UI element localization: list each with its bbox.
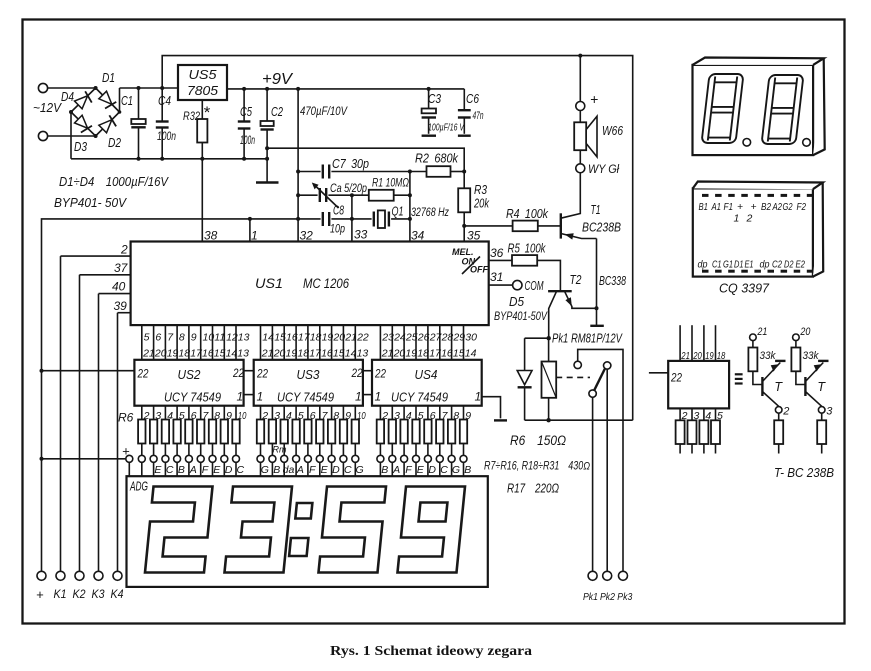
digit 2 — [145, 487, 213, 573]
svg-text:8: 8 — [179, 332, 185, 344]
svg-text:1: 1 — [251, 229, 258, 243]
diode D4 — [75, 91, 94, 110]
svg-text:2: 2 — [120, 243, 128, 257]
svg-text:C1: C1 — [712, 259, 722, 271]
svg-text:Pk2: Pk2 — [600, 591, 615, 603]
pin 40 wire — [99, 293, 131, 295]
resistor array col 4 — [173, 406, 185, 477]
resistor array col 12 — [281, 406, 295, 477]
IC US1 MC1206 — [131, 242, 489, 326]
svg-text:19: 19 — [405, 348, 417, 360]
svg-text:F: F — [405, 464, 412, 476]
svg-text:22: 22 — [256, 367, 268, 381]
svg-text:22: 22 — [356, 332, 369, 344]
svg-text:31: 31 — [490, 270, 503, 284]
svg-text:40: 40 — [112, 280, 126, 294]
svg-text:US4: US4 — [415, 368, 438, 382]
svg-text:E: E — [417, 464, 425, 476]
CQ3397 top labels — [699, 201, 807, 225]
resistor array col 24 — [436, 406, 449, 477]
wire US4 pin1 to ground — [482, 397, 501, 419]
svg-text:1: 1 — [237, 390, 244, 404]
svg-text:C: C — [237, 464, 245, 476]
relay contact fixed — [574, 361, 581, 368]
svg-text:UCY 74549: UCY 74549 — [277, 390, 334, 405]
svg-text:1: 1 — [734, 213, 740, 225]
svg-text:7805: 7805 — [187, 83, 219, 98]
svg-text:E: E — [154, 464, 162, 476]
svg-text:5: 5 — [144, 332, 150, 344]
svg-text:D: D — [428, 464, 436, 476]
svg-text:C5: C5 — [240, 105, 252, 119]
svg-text:2: 2 — [143, 410, 150, 422]
diode D2 — [99, 115, 118, 134]
svg-text:2: 2 — [261, 410, 268, 422]
svg-text:D1: D1 — [102, 71, 115, 85]
svg-text:A1: A1 — [711, 201, 721, 213]
svg-text:C7 30p: C7 30p — [332, 157, 369, 171]
svg-text:B1: B1 — [699, 201, 709, 213]
svg-text:ADG: ADG — [129, 479, 148, 494]
svg-text:R5 100k: R5 100k — [508, 242, 547, 256]
svg-text:2: 2 — [381, 410, 388, 422]
resistor array col 6 — [197, 406, 210, 477]
svg-text:B: B — [464, 464, 471, 476]
svg-text:32: 32 — [300, 229, 314, 243]
svg-text:C6: C6 — [466, 92, 479, 106]
wire common plus line — [42, 219, 299, 572]
pin 31 wire — [489, 284, 513, 286]
svg-text:11: 11 — [214, 332, 225, 344]
svg-text:22: 22 — [232, 366, 244, 380]
svg-text:R4 100k: R4 100k — [506, 207, 549, 221]
resistor array col 25 — [448, 406, 460, 477]
svg-text:21: 21 — [261, 348, 274, 360]
svg-text:8: 8 — [333, 410, 339, 422]
resistor R32 — [183, 100, 211, 242]
wires US1 to driver pin columns — [142, 325, 464, 360]
terminal + — [37, 571, 46, 580]
trimmer Ca — [298, 181, 367, 208]
svg-text:E: E — [321, 464, 329, 476]
svg-text:T- BC 238B: T- BC 238B — [774, 466, 834, 480]
svg-text:100n: 100n — [157, 131, 176, 143]
svg-text:10p: 10p — [330, 222, 345, 236]
svg-text:13: 13 — [238, 332, 250, 344]
resistor array col 15 — [316, 406, 329, 477]
svg-text:K2: K2 — [73, 589, 87, 601]
svg-text:G1: G1 — [723, 259, 733, 271]
svg-text:21: 21 — [757, 326, 768, 338]
svg-text:3: 3 — [155, 410, 161, 422]
resistor R4 — [464, 207, 561, 231]
svg-text:Pk1: Pk1 — [583, 591, 598, 603]
svg-text:F: F — [202, 464, 209, 476]
module dp 1 — [743, 139, 751, 147]
svg-text:G: G — [261, 464, 269, 476]
svg-text:dp: dp — [760, 259, 770, 271]
resistor R3 — [458, 172, 489, 242]
svg-text:23: 23 — [381, 332, 394, 344]
wire pin22 row to plus line — [42, 370, 135, 372]
svg-text:8: 8 — [214, 410, 220, 422]
junction dots mid — [40, 306, 599, 461]
terminal ~12V upper — [38, 83, 47, 92]
svg-text:R3: R3 — [474, 183, 487, 197]
svg-text:Pk3: Pk3 — [617, 591, 632, 603]
svg-text:MC 1206: MC 1206 — [303, 276, 349, 291]
svg-text:25: 25 — [405, 332, 418, 344]
svg-text:32768 Hz: 32768 Hz — [411, 207, 449, 219]
svg-text:US1: US1 — [255, 276, 283, 291]
svg-text:15: 15 — [274, 332, 286, 344]
wire top rail to speaker — [162, 56, 633, 421]
svg-text:F1: F1 — [724, 201, 734, 213]
7-seg display module 3D — [693, 58, 825, 156]
digit 3 — [224, 487, 292, 573]
svg-text:21: 21 — [681, 350, 690, 362]
transistor T1 BC238B — [561, 173, 621, 240]
svg-text:33: 33 — [354, 228, 368, 242]
capacitor C7 — [298, 157, 410, 179]
svg-text:20: 20 — [154, 348, 167, 360]
svg-text:16: 16 — [321, 348, 333, 360]
resistor R2 — [410, 151, 464, 177]
svg-text:15: 15 — [453, 348, 465, 360]
svg-text:BYP401-50V: BYP401-50V — [494, 311, 548, 323]
transistor equivalent 2 pins 20-3 — [791, 326, 833, 454]
pin 2 wire — [61, 255, 131, 257]
svg-text:22: 22 — [351, 366, 363, 380]
svg-text:R32: R32 — [183, 109, 200, 123]
capacitor C4 — [156, 88, 176, 159]
svg-text:C8: C8 — [333, 204, 344, 218]
wire K4 vertical — [117, 313, 119, 572]
svg-text:D1÷D4 1000µF/16V: D1÷D4 1000µF/16V — [59, 174, 169, 189]
node DC- riser — [70, 112, 72, 159]
capacitor C6 — [458, 89, 484, 136]
wire Pk1 vertical — [592, 397, 594, 571]
MEL ON/OFF switch — [452, 247, 488, 275]
wire plus row — [42, 458, 126, 460]
svg-text:18: 18 — [297, 348, 309, 360]
svg-text:R6 150Ω: R6 150Ω — [510, 433, 566, 448]
resistor R1 — [352, 176, 410, 201]
pin 37 wire — [80, 274, 131, 276]
terminal K4 — [113, 571, 122, 580]
svg-text:F: F — [309, 464, 316, 476]
svg-text:14: 14 — [465, 348, 477, 360]
resistor array col 8 — [221, 406, 233, 477]
svg-text:E: E — [213, 464, 221, 476]
relay coil Pk1 — [542, 338, 557, 420]
wire ground rail — [71, 158, 267, 160]
display board box — [127, 476, 488, 587]
svg-text:18: 18 — [717, 350, 726, 362]
terminal K2 — [75, 571, 84, 580]
terminal Pk1 — [588, 571, 597, 580]
svg-text:28: 28 — [441, 332, 454, 344]
svg-text:10: 10 — [238, 410, 247, 422]
wire US3-US4 links — [363, 370, 372, 372]
svg-text:D2: D2 — [108, 136, 121, 150]
wire pin32 vertical — [297, 89, 299, 242]
capacitor C2 — [261, 89, 284, 183]
wire AC top — [48, 87, 96, 89]
regulator US5 7805 — [178, 65, 227, 100]
wire DC+ rail to US5 — [120, 87, 179, 89]
svg-text:C: C — [166, 464, 174, 476]
svg-text:470µF/10V: 470µF/10V — [300, 104, 348, 118]
pin 36 wire — [489, 259, 512, 261]
wire pin33 vertical — [351, 195, 353, 241]
svg-text:5: 5 — [179, 410, 185, 422]
svg-text:13: 13 — [237, 348, 249, 360]
svg-text:100n: 100n — [240, 135, 255, 147]
svg-text:15: 15 — [214, 348, 226, 360]
svg-text:R6: R6 — [118, 411, 134, 425]
svg-text:K4: K4 — [111, 589, 124, 601]
equivalence symbol — [735, 374, 743, 383]
svg-text:36: 36 — [490, 246, 504, 260]
svg-text:D3: D3 — [74, 140, 87, 154]
svg-text:R7÷R16, R18÷R31 430Ω: R7÷R16, R18÷R31 430Ω — [484, 461, 590, 473]
speaker WY GL terminal — [579, 150, 581, 164]
svg-text:15: 15 — [333, 348, 345, 360]
capacitor C3 — [422, 89, 465, 136]
svg-text:9: 9 — [465, 410, 471, 422]
labels driver top pin numbers — [142, 348, 477, 360]
CQ3397 bottom labels — [698, 259, 806, 271]
resistor array col 22 — [412, 406, 424, 477]
svg-text:19: 19 — [705, 350, 714, 362]
svg-text:D4: D4 — [61, 90, 74, 104]
terminal plus row circle — [126, 455, 133, 462]
svg-text:2: 2 — [681, 410, 688, 422]
svg-text:US3: US3 — [297, 368, 320, 382]
svg-text:5: 5 — [418, 410, 424, 422]
labels US1 bottom pin numbers — [144, 332, 478, 344]
svg-text:10: 10 — [357, 410, 366, 422]
svg-text:BYP401- 50V: BYP401- 50V — [54, 195, 127, 210]
bridge rectifier frame — [71, 88, 120, 136]
resistor array col 16 — [328, 406, 340, 477]
svg-text:+: + — [751, 201, 757, 213]
svg-text:+9V: +9V — [262, 71, 294, 88]
relay contact lever — [604, 362, 611, 369]
svg-text:29: 29 — [452, 332, 465, 344]
svg-text:20: 20 — [800, 326, 812, 338]
CQ3397 pinout box 3D — [693, 182, 823, 277]
svg-text:G2: G2 — [783, 201, 793, 213]
svg-text:18: 18 — [417, 348, 429, 360]
svg-text:Pk1 RM81P/12V: Pk1 RM81P/12V — [552, 332, 623, 346]
svg-text:G: G — [356, 464, 364, 476]
resistor array col 19 — [377, 406, 389, 477]
module digit 2 — [762, 75, 804, 144]
svg-text:Ca 5/20p: Ca 5/20p — [330, 181, 367, 195]
svg-text:21: 21 — [344, 332, 357, 344]
svg-text:1: 1 — [257, 390, 264, 404]
wire T1 emitter down — [596, 239, 598, 309]
svg-text:33k: 33k — [803, 350, 819, 362]
svg-text:22: 22 — [137, 367, 149, 381]
svg-text:UCY 74549: UCY 74549 — [164, 390, 221, 405]
svg-text:6: 6 — [430, 410, 436, 422]
ground T1T2 — [596, 308, 598, 326]
svg-text:20: 20 — [332, 332, 345, 344]
resistor array col 14 — [304, 406, 316, 477]
svg-text:1: 1 — [475, 390, 482, 404]
svg-text:COM: COM — [525, 279, 544, 293]
terminal K3 — [94, 571, 103, 580]
svg-text:12: 12 — [226, 332, 238, 344]
svg-text:T2: T2 — [570, 272, 583, 287]
svg-text:4: 4 — [286, 410, 292, 422]
wire pin1 vertical — [249, 219, 251, 242]
resistor array col 21 — [400, 406, 412, 477]
module digit 1 — [702, 74, 744, 143]
capacitor C1 — [121, 88, 146, 159]
svg-text:C3: C3 — [428, 92, 441, 106]
resistor array col 10 — [257, 406, 269, 477]
svg-text:20k: 20k — [473, 197, 489, 211]
svg-text:18: 18 — [310, 332, 322, 344]
terminal Pk2 — [603, 571, 612, 580]
svg-text:R1 10MΩ: R1 10MΩ — [372, 176, 409, 190]
node DC+ riser — [119, 88, 121, 112]
svg-text:F2: F2 — [797, 201, 807, 213]
svg-text:E2: E2 — [796, 259, 806, 271]
svg-text:R2 680k: R2 680k — [415, 151, 459, 166]
svg-text:+: + — [122, 444, 130, 459]
wire relay bottom — [525, 419, 633, 421]
equivalent circuit chip box — [649, 372, 668, 374]
svg-text:2: 2 — [746, 213, 753, 225]
resistor array col 5 — [185, 406, 197, 477]
svg-text:~12V: ~12V — [33, 101, 63, 115]
wire ground branch to R2R3 — [267, 148, 464, 171]
svg-text:A: A — [296, 464, 304, 476]
svg-text:5: 5 — [717, 410, 723, 422]
wire +9V rail — [227, 88, 464, 90]
resistor array col 9 — [232, 406, 246, 477]
svg-text:1: 1 — [375, 390, 382, 404]
svg-text:4: 4 — [167, 410, 173, 422]
svg-text:da: da — [283, 464, 295, 476]
resistor array col 13 — [292, 406, 304, 477]
svg-text:5: 5 — [298, 410, 304, 422]
resistor array col 20 — [389, 406, 401, 477]
diode D1 — [97, 91, 116, 110]
svg-text:A: A — [189, 464, 197, 476]
svg-text:MEL.: MEL. — [452, 247, 474, 257]
svg-text:21: 21 — [381, 348, 394, 360]
chip bottom pins 2 3 4 5 with resistors — [676, 408, 688, 453]
svg-text:UCY 74549: UCY 74549 — [391, 390, 448, 405]
svg-text:R17 220Ω: R17 220Ω — [507, 482, 559, 496]
svg-text:+: + — [36, 587, 44, 602]
resistor array col 18 — [352, 406, 366, 477]
svg-text:19: 19 — [322, 332, 334, 344]
svg-text:3: 3 — [274, 410, 280, 422]
svg-text:T1: T1 — [591, 202, 601, 217]
resistor array col 7 — [209, 406, 221, 477]
svg-text:D: D — [332, 464, 340, 476]
svg-text:9: 9 — [191, 332, 197, 344]
resistor array col 26 — [460, 406, 472, 477]
svg-text:14: 14 — [226, 348, 238, 360]
svg-text:19: 19 — [286, 348, 298, 360]
svg-text:K3: K3 — [92, 589, 106, 601]
svg-text:C: C — [344, 464, 352, 476]
wire pin34 vertical — [409, 172, 411, 242]
svg-text:C2: C2 — [271, 105, 283, 119]
wire Pk2 vertical — [606, 369, 608, 571]
svg-text:A2: A2 — [772, 201, 782, 213]
junction dots power — [69, 54, 582, 161]
ground below C2 — [256, 181, 279, 183]
svg-text:BC238B: BC238B — [582, 221, 621, 235]
svg-text:C4: C4 — [158, 94, 171, 108]
svg-text:K1: K1 — [54, 589, 67, 601]
diode D5 — [517, 338, 532, 420]
svg-text:39: 39 — [114, 299, 128, 313]
svg-text:47n: 47n — [473, 110, 484, 122]
resistor array col 2 — [150, 406, 162, 477]
svg-text:1: 1 — [355, 390, 362, 404]
svg-text:+: + — [590, 91, 598, 107]
capacitor C5 — [238, 89, 255, 159]
svg-text:19: 19 — [167, 348, 179, 360]
svg-text:W66: W66 — [602, 124, 623, 138]
diode D3 — [73, 115, 92, 134]
svg-text:D2: D2 — [784, 259, 794, 271]
terminal Pk3 — [619, 571, 628, 580]
svg-text:D: D — [225, 464, 233, 476]
svg-text:21: 21 — [142, 348, 155, 360]
svg-text:A: A — [392, 464, 400, 476]
transistor T2 BC338 — [548, 272, 626, 338]
svg-text:C1: C1 — [121, 94, 133, 108]
speaker W66 — [579, 111, 581, 123]
resistor array col 3 — [162, 406, 174, 477]
wire relay top — [525, 337, 549, 339]
svg-text:D1: D1 — [734, 259, 744, 271]
svg-text:+: + — [737, 201, 743, 213]
terminal ~12V lower — [38, 131, 47, 140]
svg-text:13: 13 — [357, 348, 369, 360]
svg-text:34: 34 — [411, 229, 425, 243]
svg-text:B: B — [381, 464, 388, 476]
svg-text:G: G — [452, 464, 460, 476]
resistor array col 1 — [138, 406, 150, 477]
wire K1 vertical — [60, 256, 62, 571]
wire K2 vertical — [79, 275, 81, 572]
svg-text:CQ 3397: CQ 3397 — [719, 281, 770, 296]
svg-text:B: B — [178, 464, 185, 476]
svg-text:22: 22 — [670, 371, 682, 385]
resistor array col 17 — [340, 406, 352, 477]
svg-text:24: 24 — [393, 332, 406, 344]
svg-text:30: 30 — [465, 332, 477, 344]
colon — [289, 503, 312, 556]
IC US4 UCY74549 — [372, 360, 482, 406]
svg-text:6: 6 — [155, 332, 161, 344]
svg-text:6: 6 — [310, 410, 316, 422]
svg-text:B2: B2 — [761, 201, 771, 213]
svg-text:B: B — [273, 464, 280, 476]
